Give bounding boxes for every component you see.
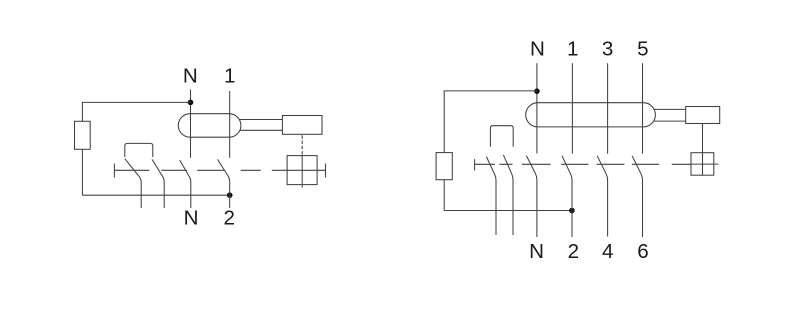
- wire: resistor to bottom test wire: [81, 149, 83, 195]
- main contact pole N (left): [180, 160, 191, 208]
- bracket joining test contacts (right): [490, 126, 513, 147]
- test button vertical cross line: [301, 156, 303, 188]
- test button horizontal cross line and right arm: [287, 169, 325, 171]
- wire: pole 5 conductor (top right): [642, 63, 644, 154]
- svg-text:3: 3: [602, 38, 613, 61]
- svg-text:2: 2: [568, 240, 579, 263]
- resistor R (test resistor): [75, 121, 91, 149]
- wire: from N junction to test resistor (right): [444, 91, 537, 153]
- wire: bottom test wire to pole 2: [82, 194, 229, 196]
- mechanical linkage left T-bar: [113, 164, 115, 178]
- test button right T-bar: [325, 164, 327, 178]
- svg-text:5: 5: [637, 38, 648, 61]
- wire: sensing winding lower lead to trip coil: [239, 129, 282, 131]
- toroidal current transformer (left): [178, 114, 241, 138]
- wire: sensing winding upper lead to trip coil: [239, 119, 282, 121]
- wire: sensing winding upper lead to trip coil (right): [654, 108, 686, 110]
- test button horizontal cross line and right arm (right): [691, 163, 718, 165]
- dashed link: trip coil to test button: [301, 135, 303, 155]
- wire: pole 1 conductor (top): [229, 91, 231, 158]
- link: trip coil to test button (right, solid): [702, 124, 704, 176]
- svg-text:1: 1: [567, 38, 578, 61]
- main contact pole 3-4 (right): [597, 156, 607, 237]
- node: junction dot on pole 2 conductor: [227, 192, 233, 198]
- node: junction dot on pole 2 conductor (right): [569, 208, 575, 214]
- bracket joining test contacts: [125, 143, 153, 157]
- svg-text:2: 2: [223, 207, 234, 230]
- trip coil / relay (right): [686, 107, 720, 124]
- wire: pole 1 conductor (top right): [571, 63, 573, 154]
- mechanical linkage (dashed): [114, 169, 287, 171]
- test contact a (right): [486, 157, 496, 235]
- main contact pole 5-6 (right): [632, 156, 642, 237]
- wire: pole N conductor (top right): [536, 63, 538, 153]
- test contact a (left): [125, 159, 141, 208]
- svg-text:N: N: [183, 65, 198, 88]
- svg-text:N: N: [529, 240, 544, 263]
- toroidal current transformer (right): [526, 103, 656, 127]
- test button (right): [691, 153, 714, 176]
- mechanical linkage (dashed, right): [475, 163, 691, 165]
- resistor R (test resistor, right): [436, 153, 452, 180]
- wire: bottom test wire to pole 2 (right): [444, 210, 572, 212]
- main contact pole 1-2 (right): [562, 156, 572, 237]
- svg-text:1: 1: [224, 65, 235, 88]
- mechanical linkage left T-bar (right): [474, 159, 476, 170]
- wire: pole N conductor (top): [190, 90, 192, 158]
- wire: sensing winding lower lead to trip coil (right): [654, 120, 686, 122]
- svg-text:4: 4: [602, 240, 613, 263]
- svg-text:6: 6: [637, 240, 648, 263]
- wire: from N junction to test resistor: [82, 102, 190, 121]
- main contact pole N (right): [526, 156, 537, 237]
- node: junction dot on N conductor: [188, 100, 194, 106]
- test button (left): [287, 156, 317, 185]
- wire: pole 3 conductor (top right): [607, 63, 609, 154]
- main contact pole 1-2 (left): [218, 159, 230, 208]
- test contact b (left): [152, 159, 164, 208]
- svg-text:N: N: [530, 38, 545, 61]
- trip coil / relay (left): [282, 116, 322, 135]
- wire: resistor to bottom test wire (right): [443, 180, 445, 211]
- svg-text:N: N: [184, 207, 199, 230]
- test contact b (right): [503, 155, 513, 235]
- node: junction dot on N conductor (right): [534, 88, 540, 94]
